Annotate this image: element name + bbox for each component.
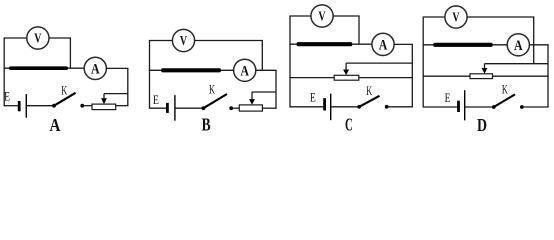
wire battery to switch (A) <box>26 105 54 107</box>
wire voltmeter branch vertical (C) <box>358 16 360 44</box>
rheostat slider arrow (B) <box>249 92 255 105</box>
switch K (A) <box>52 93 84 108</box>
svg-text:A: A <box>240 64 249 80</box>
wire rheostat row right (D) <box>493 75 549 77</box>
resistor R thick bar (D) <box>433 43 492 47</box>
wire ammeter to right vertical (B) <box>256 69 277 71</box>
battery E plates (B) <box>167 95 175 121</box>
rheostat body box (A) <box>92 104 116 110</box>
wire battery to switch (C) <box>331 106 360 108</box>
wire bottom left to battery (A) <box>4 105 20 107</box>
wire voltmeter branch vertical (A) <box>69 38 71 68</box>
wire battery to switch (D) <box>465 106 494 108</box>
circuit C <box>289 5 413 135</box>
circuit D <box>423 6 549 135</box>
svg-text:K: K <box>61 84 67 98</box>
voltmeter V (C) <box>311 5 333 27</box>
svg-text:K: K <box>502 83 508 97</box>
svg-text:V: V <box>180 33 187 48</box>
wire ammeter to right vertical (A) <box>106 67 128 69</box>
wire resistor row (B) <box>149 69 234 71</box>
svg-text:A: A <box>50 115 61 135</box>
voltmeter V (A) <box>27 27 49 49</box>
svg-text:K: K <box>209 82 215 96</box>
wire left vertical (D) <box>422 17 424 107</box>
ammeter A (A) <box>84 57 106 79</box>
wire resistor row (A) <box>4 67 85 69</box>
svg-text:K: K <box>366 84 372 98</box>
ammeter A (C) <box>372 33 394 55</box>
rheostat body box (D) <box>470 74 493 79</box>
wire top right (B) <box>195 40 263 42</box>
wire switch to rheostat (A) <box>82 105 92 107</box>
wire resistor row (C) <box>289 43 372 45</box>
wire right vertical (C) <box>411 44 413 106</box>
switch K (C) <box>357 96 388 109</box>
rheostat slider arrow (A) <box>101 94 107 104</box>
ammeter A (D) <box>507 34 529 56</box>
rheostat body box (B) <box>239 105 262 111</box>
wire top left (C) <box>289 15 311 17</box>
wire resistor row (D) <box>423 44 508 46</box>
circuit B <box>149 29 277 134</box>
svg-text:B: B <box>202 115 211 135</box>
wire bottom left to battery (D) <box>423 106 459 108</box>
svg-text:C: C <box>345 114 353 134</box>
switch K (B) <box>202 94 234 110</box>
svg-text:E: E <box>310 90 316 104</box>
switch K (D) <box>492 94 524 109</box>
wire switch to right vertical (D) <box>522 106 549 108</box>
wire rheostat row right (C) <box>359 77 413 79</box>
voltmeter V (B) <box>172 29 194 51</box>
wire bottom left to battery (C) <box>289 106 324 108</box>
svg-text:V: V <box>452 10 459 25</box>
voltmeter V (D) <box>445 6 467 28</box>
wire top left (A) <box>4 37 27 39</box>
wire switch to rheostat (B) <box>231 107 239 109</box>
wire battery to switch (B) <box>175 107 204 109</box>
svg-text:V: V <box>34 31 41 46</box>
wire switch to right vertical (C) <box>387 106 413 108</box>
wire rheostat row left (D) <box>423 75 470 77</box>
wire rheostat to right vertical (A) <box>116 105 129 107</box>
rheostat body box (C) <box>334 75 359 80</box>
resistor R thick bar (B) <box>161 68 221 72</box>
svg-text:E: E <box>153 93 159 107</box>
svg-text:E: E <box>4 89 10 103</box>
wire top right (A) <box>49 37 71 39</box>
wire right vertical (B) <box>275 70 277 108</box>
svg-text:V: V <box>318 9 325 24</box>
wire left vertical (B) <box>149 41 151 109</box>
svg-text:A: A <box>91 62 100 78</box>
wire rheostat wiper to right vertical (B) <box>252 91 276 93</box>
wire ammeter to right vertical (C) <box>394 43 413 45</box>
wire top right (C) <box>333 15 360 17</box>
resistor R thick bar (A) <box>9 66 68 70</box>
battery E plates (A) <box>19 94 26 118</box>
ammeter A (B) <box>234 59 256 81</box>
wire ammeter to right vertical (D) <box>529 44 548 46</box>
battery E plates (D) <box>459 90 465 120</box>
wire right vertical (A) <box>127 68 129 105</box>
wire top left (B) <box>149 40 173 42</box>
rheostat slider arrow (C) <box>343 63 349 75</box>
wire rheostat to right vertical (B) <box>262 107 276 109</box>
wire right vertical (D) <box>547 45 549 107</box>
wire left vertical (C) <box>289 16 291 107</box>
svg-text:D: D <box>477 115 487 135</box>
wire rheostat row left (C) <box>289 77 334 79</box>
wire voltmeter branch vertical (D) <box>533 17 535 64</box>
svg-text:A: A <box>514 38 523 54</box>
wire rheostat wiper to right vertical (D) <box>485 63 549 65</box>
wire rheostat wiper to right vertical (A) <box>104 93 128 95</box>
circuit A <box>4 27 129 135</box>
wire bottom left to battery (B) <box>149 107 168 109</box>
wire top right (D) <box>467 16 534 18</box>
wire voltmeter branch vertical (B) <box>261 41 263 71</box>
svg-text:E: E <box>445 91 451 105</box>
battery E plates (C) <box>325 94 331 121</box>
wire top left (D) <box>423 16 445 18</box>
wire left vertical (A) <box>3 38 5 106</box>
svg-text:A: A <box>379 38 388 54</box>
wire rheostat wiper to right vertical (C) <box>346 62 412 64</box>
resistor R thick bar (C) <box>297 42 353 46</box>
rheostat slider arrow (D) <box>482 64 488 74</box>
